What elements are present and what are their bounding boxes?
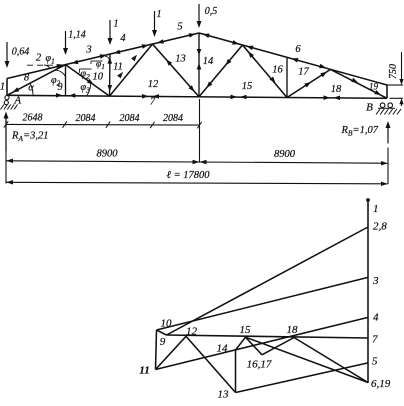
svg-text:6: 6 bbox=[295, 44, 301, 55]
svg-text:2648: 2648 bbox=[23, 113, 43, 124]
svg-text:12: 12 bbox=[186, 326, 198, 338]
svg-text:φ1: φ1 bbox=[96, 60, 105, 72]
svg-text:5: 5 bbox=[177, 22, 182, 33]
svg-text:2: 2 bbox=[36, 53, 42, 64]
svg-text:11: 11 bbox=[139, 365, 149, 377]
svg-text:1: 1 bbox=[114, 19, 119, 30]
svg-text:α: α bbox=[28, 83, 34, 94]
svg-text:φ1: φ1 bbox=[46, 53, 55, 66]
svg-text:B: B bbox=[366, 102, 373, 114]
svg-text:A: A bbox=[13, 95, 21, 107]
svg-text:4: 4 bbox=[120, 33, 126, 44]
svg-text:RB=1,07: RB=1,07 bbox=[341, 125, 379, 138]
svg-text:2,8: 2,8 bbox=[373, 221, 387, 233]
svg-text:8900: 8900 bbox=[97, 149, 119, 160]
svg-text:9: 9 bbox=[58, 82, 63, 93]
svg-text:φ3: φ3 bbox=[81, 82, 91, 95]
svg-text:φ2: φ2 bbox=[81, 69, 91, 82]
svg-text:6,19: 6,19 bbox=[371, 378, 391, 390]
svg-text:750: 750 bbox=[388, 64, 399, 79]
svg-text:2084: 2084 bbox=[76, 113, 96, 124]
svg-text:11: 11 bbox=[113, 62, 123, 73]
svg-text:13: 13 bbox=[175, 54, 186, 65]
svg-text:3: 3 bbox=[372, 275, 379, 287]
svg-text:1: 1 bbox=[373, 203, 379, 215]
svg-text:16: 16 bbox=[272, 65, 283, 76]
svg-text:12: 12 bbox=[148, 79, 159, 90]
svg-text:2084: 2084 bbox=[120, 113, 140, 124]
svg-text:15: 15 bbox=[242, 81, 253, 92]
svg-text:5: 5 bbox=[372, 356, 378, 368]
svg-text:7: 7 bbox=[150, 96, 156, 107]
svg-text:ℓ = 17800: ℓ = 17800 bbox=[167, 170, 211, 181]
svg-text:19: 19 bbox=[369, 82, 379, 92]
svg-text:0,64: 0,64 bbox=[12, 47, 30, 58]
svg-text:8: 8 bbox=[24, 73, 30, 84]
svg-text:1,14: 1,14 bbox=[68, 30, 86, 41]
svg-text:14: 14 bbox=[217, 343, 229, 355]
svg-text:4: 4 bbox=[373, 312, 379, 324]
svg-text:15: 15 bbox=[240, 324, 252, 336]
svg-text:16,17: 16,17 bbox=[247, 359, 272, 371]
svg-text:14: 14 bbox=[203, 56, 214, 67]
svg-text:18: 18 bbox=[287, 324, 299, 336]
svg-text:3: 3 bbox=[85, 44, 91, 55]
svg-text:13: 13 bbox=[218, 389, 230, 401]
svg-text:RA=3,21: RA=3,21 bbox=[11, 131, 48, 144]
svg-text:9: 9 bbox=[160, 336, 166, 348]
svg-text:0,5: 0,5 bbox=[205, 6, 218, 17]
svg-text:1: 1 bbox=[0, 82, 5, 93]
svg-text:2084: 2084 bbox=[163, 113, 183, 124]
svg-text:10: 10 bbox=[161, 318, 173, 330]
svg-text:1: 1 bbox=[157, 9, 162, 20]
svg-text:10: 10 bbox=[93, 72, 104, 83]
svg-text:8900: 8900 bbox=[274, 149, 296, 160]
svg-text:18: 18 bbox=[331, 84, 342, 95]
svg-text:7: 7 bbox=[372, 334, 378, 346]
svg-text:17: 17 bbox=[298, 67, 309, 78]
